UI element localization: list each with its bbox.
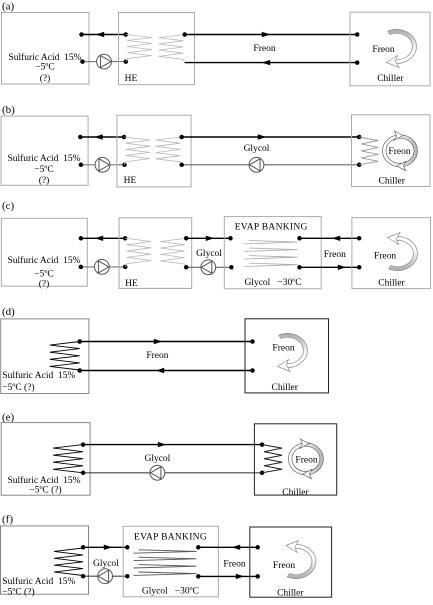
pump P1 (a) — [97, 54, 112, 69]
tank box (c) — [1, 218, 87, 286]
pump P2 glycol (b) — [249, 157, 264, 172]
arrow right (d) freon — [154, 339, 162, 344]
svg-text:Freon: Freon — [273, 561, 295, 571]
pipe tank-HE top (b) — [80, 136, 124, 138]
svg-text:−5ºC (?): −5ºC (?) — [29, 485, 61, 496]
node HE bottom-left (a) — [124, 59, 129, 64]
arrow right (e) glycol — [158, 442, 166, 447]
node HE top-right (a) — [182, 32, 187, 37]
node chiller top (f) — [255, 545, 260, 550]
svg-text:Chiller: Chiller — [277, 589, 304, 599]
pump P1 (c) — [95, 260, 110, 275]
node HE bottom-right (c) — [184, 265, 189, 270]
tank label (e) — [7, 475, 80, 496]
node HE bottom-left (c) — [123, 265, 128, 270]
pump P2 glycol (f) — [98, 569, 113, 584]
arrow right (b) glycol supply — [258, 134, 266, 139]
svg-text:EVAP BANKING: EVAP BANKING — [134, 533, 207, 543]
node chiller bottom (f) — [255, 574, 260, 579]
tank coil (e) — [53, 445, 83, 473]
chiller coil (b) — [359, 137, 378, 165]
arrow left (b) — [94, 134, 102, 139]
tank box (b) — [1, 116, 88, 185]
svg-text:Chiller: Chiller — [272, 383, 299, 393]
svg-text:Glycol −30ºC: Glycol −30ºC — [244, 278, 301, 288]
node evap bottom-right (c) — [297, 265, 302, 270]
node HE top-left (c) — [123, 236, 128, 241]
pipe tank-evap top (f) glycol — [83, 546, 127, 548]
node evap bottom-right (f) — [196, 574, 201, 579]
svg-text:Sulfuric Acid 15%: Sulfuric Acid 15% — [7, 475, 80, 486]
svg-text:(?): (?) — [39, 279, 50, 290]
pipe HE-evap bottom (c) — [186, 266, 231, 268]
pipe tank-chiller bottom (d) — [80, 370, 253, 372]
HE box (a) — [119, 13, 195, 85]
svg-text:Chiller: Chiller — [378, 279, 405, 289]
tank coil (f) — [54, 548, 83, 576]
svg-text:(f): (f) — [2, 514, 13, 526]
HE coil left (c) — [125, 238, 151, 267]
tank label (b) — [7, 153, 80, 186]
svg-text:EVAP BANKING: EVAP BANKING — [235, 223, 308, 233]
HE coil left (a) — [126, 35, 152, 62]
tank label (f) — [2, 576, 75, 598]
HE coil right (a) — [159, 35, 185, 63]
tank coil (d) — [50, 342, 80, 371]
svg-text:Freon: Freon — [295, 456, 317, 466]
svg-text:Sulfuric Acid 15%: Sulfuric Acid 15% — [2, 576, 75, 587]
pipe evap-chiller top (f) freon — [198, 546, 257, 548]
tank box (a) sulfuric acid — [2, 13, 90, 85]
svg-text:Freon: Freon — [253, 44, 275, 54]
node tank bottom (d) — [77, 368, 82, 373]
node HE top-left (b) — [122, 135, 127, 140]
node chiller bottom (b) — [357, 163, 362, 168]
chiller cycle arrow (a) — [388, 29, 417, 63]
node chiller bottom (a) — [355, 60, 360, 65]
node chiller bottom (e) — [260, 471, 265, 476]
node tank bottom (c) — [79, 265, 84, 270]
svg-text:−5ºC (?): −5ºC (?) — [2, 587, 34, 598]
node evap bottom-left (f) — [125, 574, 130, 579]
svg-text:Glycol: Glycol — [244, 144, 270, 154]
arrow right (c) glycol — [206, 236, 214, 241]
pipe tank-HE bottom (a) — [83, 61, 126, 63]
pipe tank-HE top (a) — [82, 34, 126, 36]
arrow left (a) freon return — [262, 60, 270, 65]
tank label (c) — [7, 255, 80, 290]
svg-text:HE: HE — [125, 279, 138, 289]
arrow right (a) freon supply — [262, 32, 270, 37]
chiller box (f) — [250, 527, 332, 597]
HE coil left (b) — [124, 137, 150, 165]
node tank top (f) — [81, 545, 86, 550]
svg-text:Freon: Freon — [388, 147, 410, 157]
node tank top (a) — [79, 32, 84, 37]
arrow left (d) freon return — [156, 368, 164, 373]
node chiller top (a) — [355, 32, 360, 37]
node tank top (c) — [79, 236, 84, 241]
arrow right (f) glycol — [104, 545, 112, 550]
node HE top-right (b) — [179, 135, 184, 140]
pipe HE-chiller bottom (b) — [182, 164, 360, 166]
evap banking box (c) — [224, 217, 321, 289]
node HE top-right (c) — [184, 236, 189, 241]
arrow left (a) tank return — [96, 32, 104, 37]
svg-text:HE: HE — [124, 176, 137, 186]
chiller cycle arrow (f) — [287, 545, 316, 579]
node tank bottom (e) — [81, 471, 86, 476]
chiller box (c) — [352, 218, 431, 289]
node HE bottom-left (b) — [122, 163, 127, 168]
chiller box (d) — [245, 319, 329, 393]
pipe tank-HE top (c) — [81, 237, 125, 239]
tank label (d) — [2, 370, 75, 393]
node evap top-right (c) — [297, 236, 302, 241]
svg-text:Sulfuric Acid 15%: Sulfuric Acid 15% — [7, 153, 80, 164]
pipe evap-chiller bottom (c) — [300, 266, 360, 268]
HE coil right (c) — [160, 238, 186, 267]
svg-text:Sulfuric Acid 15%: Sulfuric Acid 15% — [8, 52, 81, 63]
svg-text:(?): (?) — [39, 175, 50, 186]
chiller coil (e) — [262, 445, 282, 473]
HE box (b) — [117, 115, 191, 187]
svg-text:Freon: Freon — [146, 351, 168, 361]
node chiller bottom (d) — [250, 368, 255, 373]
node tank bottom (b) — [79, 163, 84, 168]
svg-text:Chiller: Chiller — [379, 177, 406, 187]
svg-text:Sulfuric Acid 15%: Sulfuric Acid 15% — [2, 370, 75, 381]
node tank top (b) — [78, 135, 83, 140]
node tank bottom (a) — [80, 59, 85, 64]
svg-text:(b): (b) — [2, 104, 15, 116]
evap coil (c) — [244, 241, 298, 267]
svg-text:−5ºC: −5ºC — [35, 63, 54, 73]
svg-text:−5ºC: −5ºC — [34, 165, 53, 175]
tank box (f) — [1, 526, 89, 594]
node evap top-right (f) — [196, 545, 201, 550]
pipe tank-chiller top (e) glycol — [83, 444, 262, 446]
svg-text:Freon: Freon — [324, 250, 346, 260]
node evap top-left (f) — [125, 545, 130, 550]
tank label (a) — [8, 52, 81, 84]
evap coil (f) — [134, 550, 197, 576]
arrow left (c) freon — [332, 236, 340, 241]
svg-text:(c): (c) — [2, 200, 15, 212]
arrow left (c) — [95, 236, 103, 241]
node HE top-left (a) — [124, 32, 129, 37]
pipe evap-chiller bottom (f) — [198, 575, 257, 577]
svg-text:Glycol: Glycol — [93, 559, 119, 569]
pipe tank-chiller top (d) freon — [80, 341, 253, 343]
pipe HE-evap top (c) glycol — [186, 237, 230, 239]
pipe tank-HE bottom (c) — [81, 266, 125, 268]
arrow right (c) freon return — [338, 265, 346, 270]
pipe HE-chiller top (b) glycol — [182, 136, 360, 138]
svg-text:Glycol: Glycol — [144, 454, 170, 464]
pipe tank-evap bottom (f) — [83, 575, 127, 577]
svg-text:Chiller: Chiller — [282, 488, 309, 498]
pipe evap-chiller top (c) freon — [300, 237, 360, 239]
svg-text:(?): (?) — [40, 73, 51, 84]
node chiller bottom (c) — [357, 265, 362, 270]
arrow right (f) freon return — [236, 574, 244, 579]
node tank top (e) — [81, 442, 86, 447]
svg-text:Freon: Freon — [372, 45, 394, 55]
chiller box (a) — [350, 12, 430, 86]
tank box (d) — [1, 319, 89, 394]
svg-text:Glycol: Glycol — [196, 249, 222, 259]
svg-text:−5ºC: −5ºC — [34, 270, 53, 280]
chiller box (e) — [254, 424, 336, 495]
HE box (c) — [119, 218, 192, 289]
tank box (e) — [1, 423, 90, 496]
svg-text:−5ºC (?): −5ºC (?) — [2, 382, 34, 393]
arrow left (f) freon — [232, 545, 240, 550]
node evap bottom-left (c) — [229, 265, 234, 270]
svg-text:Chiller: Chiller — [377, 74, 404, 84]
pump P2 glycol (e) — [150, 465, 165, 480]
node chiller top (d) — [250, 339, 255, 344]
chiller cycle arrow (c) — [389, 237, 418, 271]
pump P1 (b) — [95, 157, 110, 172]
svg-text:Freon: Freon — [374, 252, 396, 262]
node HE bottom-right (b) — [179, 163, 184, 168]
svg-text:(a): (a) — [2, 1, 15, 13]
svg-text:Freon: Freon — [223, 559, 245, 569]
node evap top-left (c) — [228, 236, 233, 241]
svg-text:HE: HE — [125, 74, 138, 84]
node chiller top (e) — [260, 442, 265, 447]
svg-text:Sulfuric Acid 15%: Sulfuric Acid 15% — [7, 255, 80, 266]
chiller cycle arrow (b) — [383, 135, 418, 167]
svg-text:Freon: Freon — [272, 344, 294, 354]
pipe HE-chiller top (a) freon — [185, 34, 358, 36]
node chiller top (c) — [357, 236, 362, 241]
svg-text:Glycol −30ºC: Glycol −30ºC — [142, 587, 199, 597]
pipe HE-chiller bottom (a) — [185, 62, 358, 64]
pipe tank-chiller bottom (e) — [83, 472, 262, 474]
node tank bottom (f) — [81, 574, 86, 579]
chiller cycle arrow (e) — [288, 443, 323, 475]
node chiller top (b) — [357, 135, 362, 140]
chiller box (b) — [352, 115, 431, 187]
node tank top (d) — [77, 339, 82, 344]
evap banking box (f) — [123, 526, 218, 597]
pump P2 glycol (c) — [201, 260, 216, 275]
chiller cycle arrow (d) — [279, 333, 308, 367]
svg-text:(e): (e) — [2, 412, 15, 424]
HE coil right (b) — [156, 137, 182, 165]
pipe tank-HE bottom (b) — [81, 164, 125, 166]
svg-text:(d): (d) — [2, 306, 15, 318]
